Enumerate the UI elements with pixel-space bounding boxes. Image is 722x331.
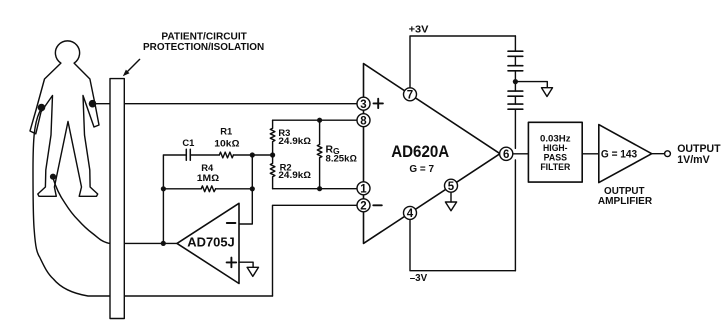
pin 1 — [357, 182, 370, 195]
electrode RA — [89, 100, 97, 108]
U1 plus sign (pin 3) — [374, 99, 383, 108]
svg-text:PROTECTION/ISOLATION: PROTECTION/ISOLATION — [143, 42, 264, 53]
wire: right-arm electrode to AD620A pin 3 — [93, 103, 358, 105]
wire: pin 7 to +3V — [410, 36, 515, 88]
svg-text:+3V: +3V — [409, 24, 429, 35]
svg-text:10kΩ: 10kΩ — [214, 137, 239, 148]
capacitor C2 — [508, 51, 523, 56]
wire: pin 4 to -3V rail — [410, 219, 515, 270]
resistor R1 — [219, 152, 233, 158]
output terminal — [665, 151, 671, 157]
svg-text:4: 4 — [407, 208, 414, 220]
wire: R4 to feedback node — [216, 188, 253, 190]
ground at U2 + input — [247, 267, 258, 276]
node: AD705J output junction — [161, 241, 166, 246]
wire: left-arm electrode curve to bottom rail — [33, 109, 273, 297]
svg-text:8: 8 — [360, 115, 367, 127]
node: RG bottom — [317, 186, 322, 191]
svg-text:1: 1 — [360, 183, 367, 195]
in-amp U1 AD620A — [364, 64, 501, 244]
svg-text:G = 143: G = 143 — [601, 149, 637, 161]
ground at supply caps — [542, 88, 553, 97]
svg-text:6: 6 — [503, 149, 509, 161]
svg-text:0.03Hz: 0.03Hz — [540, 133, 571, 143]
electrode LA — [38, 104, 46, 112]
pin 3 — [357, 97, 370, 110]
svg-text:24.9kΩ: 24.9kΩ — [278, 169, 311, 180]
pin 5 — [445, 179, 458, 192]
electrode RL (belly) — [50, 174, 56, 180]
capacitor C5 — [508, 104, 523, 109]
resistor RG — [317, 120, 322, 189]
resistor R2 — [270, 155, 275, 189]
pin 7 — [404, 88, 417, 101]
wire: bottom rail up to pin 2 — [273, 205, 358, 296]
wire: C1 to R1 — [190, 154, 219, 156]
svg-text:1V/mV: 1V/mV — [677, 154, 710, 166]
wire: left feedback column — [163, 155, 186, 243]
svg-text:2: 2 — [360, 200, 366, 212]
wire: U3 to output terminal — [652, 153, 665, 155]
wire: pin 1 row — [273, 188, 357, 190]
capacitor C1 — [186, 149, 190, 160]
op-amp U3 output amplifier — [599, 125, 652, 183]
node: feedback at R1 row — [250, 152, 255, 157]
wire: supply column segments — [514, 36, 516, 271]
svg-text:HIGH-: HIGH- — [543, 143, 568, 153]
svg-text:7: 7 — [407, 89, 413, 101]
svg-text:AD620A: AD620A — [391, 143, 449, 161]
svg-text:3: 3 — [360, 99, 366, 111]
svg-text:8.25kΩ: 8.25kΩ — [326, 152, 357, 163]
wire: belly electrode curve to AD705J output — [53, 178, 177, 243]
node: feedback at R4 row — [250, 186, 255, 191]
svg-text:R1: R1 — [220, 126, 232, 137]
U2 plus sign — [227, 258, 237, 268]
svg-text:1MΩ: 1MΩ — [197, 172, 219, 183]
svg-text:PASS: PASS — [544, 152, 567, 162]
patient body outline with head — [30, 41, 99, 196]
node: RG top — [317, 118, 322, 123]
svg-text:–3V: –3V — [410, 273, 428, 284]
U1 minus sign (pin 2) — [373, 204, 382, 206]
wire: cap midpoint to ground — [515, 82, 547, 88]
pin 6 — [500, 147, 513, 160]
wire: R1 to node — [233, 154, 272, 156]
svg-text:5: 5 — [448, 181, 455, 193]
svg-text:C1: C1 — [182, 137, 194, 148]
pin 2 — [357, 199, 370, 212]
svg-text:24.9kΩ: 24.9kΩ — [278, 135, 311, 146]
wire: U2 noninverting input to ground — [239, 262, 253, 267]
svg-text:AD705J: AD705J — [187, 235, 235, 250]
wire: filter to output amplifier — [582, 153, 599, 155]
wire: feedback column to AD705J inverting input — [239, 155, 252, 224]
wire: pin 5 to ground — [450, 192, 452, 202]
svg-text:FILTER: FILTER — [540, 162, 570, 172]
pin 8 — [357, 114, 370, 127]
svg-text:AMPLIFIER: AMPLIFIER — [598, 196, 653, 207]
node: left column at R4 row — [161, 186, 166, 191]
label arrow to barrier — [126, 59, 140, 73]
svg-text:OUTPUT: OUTPUT — [677, 143, 721, 155]
U2 minus sign — [227, 222, 236, 224]
capacitor C3 — [508, 66, 523, 71]
pin 4 — [404, 206, 417, 219]
op-amp U2 AD705J — [177, 203, 239, 283]
node: R3/R2 midpoint — [270, 152, 275, 157]
isolation barrier bar — [110, 79, 124, 319]
node: supply cap midpoint — [513, 79, 518, 84]
wire: R4 row — [163, 188, 201, 190]
wire: pin 8 row — [273, 119, 357, 121]
capacitor C4 — [508, 91, 523, 96]
svg-text:G = 7: G = 7 — [409, 164, 434, 175]
resistor R4 — [201, 186, 215, 192]
svg-text:PATIENT/CIRCUIT: PATIENT/CIRCUIT — [161, 31, 247, 42]
resistor R3 — [270, 120, 275, 155]
ground at pin 5 — [445, 202, 456, 211]
high-pass filter box — [528, 122, 582, 182]
wire: pin 6 to filter — [513, 153, 529, 155]
